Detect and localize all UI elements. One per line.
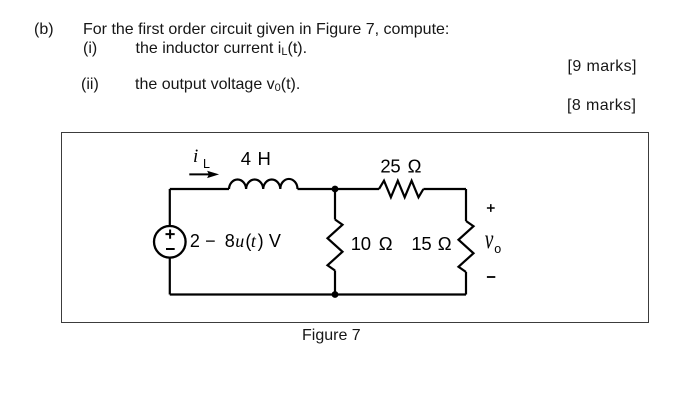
svg-text:1: 1 (411, 233, 421, 254)
svg-text:5: 5 (390, 155, 400, 176)
wire right vertical bottom (465, 272, 467, 295)
resistor 15 ohm (vertical) (459, 221, 474, 272)
current arrow iL (189, 171, 219, 178)
svg-text:2: 2 (380, 155, 390, 176)
marks 8 (567, 98, 636, 114)
wire bottom horizontal (170, 293, 466, 295)
svg-text:4: 4 (241, 148, 251, 169)
svg-text:H: H (258, 148, 271, 169)
svg-text:o: o (494, 242, 501, 256)
figure frame box (61, 132, 649, 323)
voltage source V1 circle (154, 226, 186, 258)
svg-text:t: t (251, 231, 257, 251)
svg-text:Ω: Ω (438, 233, 452, 254)
svg-text:1: 1 (351, 233, 361, 254)
svg-text:): ) (258, 231, 264, 251)
output minus sign (487, 276, 495, 278)
wire left vertical bottom (169, 258, 171, 295)
wire middle vertical top (334, 189, 336, 220)
svg-text:v: v (485, 225, 494, 255)
label source value 2 - 8u(t) V (190, 231, 281, 251)
wire middle vertical bottom (334, 271, 336, 295)
svg-text:i: i (193, 146, 198, 167)
svg-text:u: u (235, 231, 244, 251)
voltage source minus sign (166, 248, 175, 250)
svg-text:5: 5 (421, 233, 431, 254)
svg-text:Ω: Ω (408, 155, 422, 176)
inductor L1 4H (229, 179, 298, 189)
wire right vertical top (465, 189, 467, 221)
svg-text:2: 2 (190, 231, 200, 251)
svg-text:V: V (269, 231, 281, 251)
wire top-left horizontal (170, 188, 229, 190)
wire left vertical top (169, 189, 171, 226)
svg-text:0: 0 (361, 233, 371, 254)
svg-text:8: 8 (225, 231, 235, 251)
wire top-middle horizontal (298, 188, 380, 190)
caption Figure 7 (302, 328, 361, 344)
svg-text:Ω: Ω (379, 233, 393, 254)
question text line 2 (83, 41, 97, 57)
svg-text:L: L (203, 157, 210, 171)
node B (bottom junction dot) (332, 291, 339, 298)
svg-text:−: − (205, 231, 216, 251)
resistor 25 ohm (horizontal) (379, 181, 423, 198)
output plus sign (487, 204, 495, 212)
marks 9 (568, 59, 637, 75)
node A (top junction dot) (332, 186, 339, 193)
question text line 3 (81, 77, 99, 93)
resistor 10 ohm (vertical) (328, 220, 343, 271)
voltage source plus sign (166, 230, 175, 239)
wire top-right horizontal (423, 188, 466, 190)
question text line 1 (34, 22, 54, 38)
